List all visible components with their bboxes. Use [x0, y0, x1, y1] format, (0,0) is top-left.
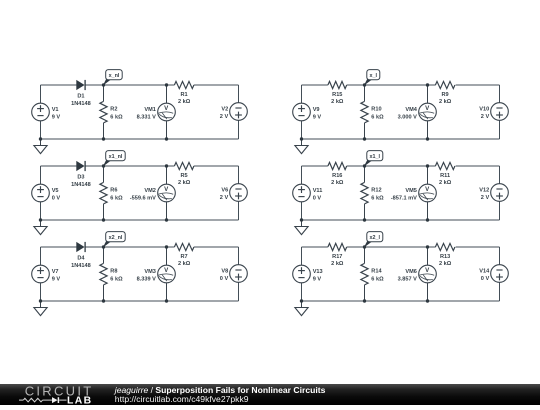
wire: node vertical (R12 branch)	[364, 166, 366, 220]
svg-text:x_l: x_l	[370, 73, 378, 79]
svg-text:V2: V2	[221, 107, 228, 113]
svg-text:V11: V11	[313, 188, 323, 194]
svg-text:R12: R12	[371, 188, 381, 194]
wire: voltmeter vertical (VM2)	[166, 166, 168, 220]
junction dots (V5 circuit)	[39, 164, 168, 221]
voltage source V1 9 V	[32, 103, 61, 121]
svg-text:R14: R14	[371, 269, 382, 275]
junction dots (V1 circuit)	[39, 83, 168, 140]
wire: voltmeter vertical (VM5)	[427, 166, 429, 220]
voltage source V9 9 V	[293, 103, 322, 121]
svg-text:6 kΩ: 6 kΩ	[371, 115, 384, 121]
wire: right vertical (V8)	[238, 247, 240, 301]
svg-text:R7: R7	[181, 254, 188, 260]
wire: left vertical (V13)	[301, 247, 303, 301]
voltage source V14 0 V	[479, 265, 508, 283]
svg-text:1N4148: 1N4148	[71, 182, 91, 188]
voltmeter VM1 8.331 V	[137, 103, 176, 121]
voltage source V11 0 V	[293, 184, 323, 202]
junction dots (V9 circuit)	[300, 83, 429, 140]
voltage source V12 2 V	[479, 184, 508, 202]
svg-text:V8: V8	[221, 269, 228, 275]
ground (V7 circuit)	[34, 301, 47, 316]
wire: bottom rail of circuit V7	[41, 300, 239, 302]
svg-text:6 kΩ: 6 kΩ	[110, 196, 123, 202]
svg-text:6 kΩ: 6 kΩ	[110, 277, 123, 283]
svg-text:2 kΩ: 2 kΩ	[178, 261, 191, 267]
node x1_l	[364, 151, 383, 167]
wire: left vertical (V9)	[301, 85, 303, 139]
resistor R12 6 k&#937;	[361, 182, 384, 204]
svg-text:VM3: VM3	[144, 269, 156, 275]
svg-text:2 kΩ: 2 kΩ	[439, 180, 452, 186]
resistor R2 6 k&#937;	[100, 101, 123, 123]
svg-text:2 kΩ: 2 kΩ	[439, 261, 452, 267]
svg-text:2 V: 2 V	[481, 195, 490, 201]
svg-text:-857.1 mV: -857.1 mV	[391, 195, 417, 201]
resistor R6 6 k&#937;	[100, 182, 123, 204]
CircuitLab logo: diode symbol	[52, 397, 67, 403]
wire: bottom rail of circuit V1	[41, 138, 239, 140]
node x_nl	[103, 70, 122, 86]
wire: top rail of circuit V11	[302, 165, 500, 167]
svg-text:2 kΩ: 2 kΩ	[439, 99, 452, 105]
voltage source V7 9 V	[32, 265, 61, 283]
junction dots (V7 circuit)	[39, 245, 168, 302]
svg-text:3.000 V: 3.000 V	[398, 114, 418, 120]
svg-text:x2_l: x2_l	[370, 235, 381, 241]
svg-text:R16: R16	[332, 173, 342, 179]
svg-text:8.331 V: 8.331 V	[137, 114, 157, 120]
svg-text:V5: V5	[52, 188, 59, 194]
svg-text:2 V: 2 V	[220, 195, 229, 201]
svg-text:9 V: 9 V	[313, 114, 322, 120]
voltage source V5 0 V	[32, 184, 61, 202]
svg-text:V1: V1	[52, 107, 59, 113]
svg-text:6 kΩ: 6 kΩ	[371, 196, 384, 202]
resistor R8 6 k&#937;	[100, 263, 123, 285]
svg-text:V9: V9	[313, 107, 320, 113]
svg-text:R5: R5	[181, 173, 188, 179]
wire: voltmeter vertical (VM1)	[166, 85, 168, 139]
wire: top rail of circuit V13	[302, 246, 500, 248]
resistor R17 2 k&#937;	[328, 243, 347, 267]
svg-text:1N4148: 1N4148	[71, 263, 91, 269]
svg-text:R11: R11	[440, 173, 450, 179]
svg-text:R2: R2	[110, 107, 117, 113]
node x_l	[364, 70, 380, 86]
svg-text:0 V: 0 V	[313, 195, 322, 201]
wire: voltmeter vertical (VM6)	[427, 247, 429, 301]
svg-text:D4: D4	[77, 256, 85, 262]
wire: left vertical (V5)	[40, 166, 42, 220]
wire: node vertical (R8 branch)	[103, 247, 105, 301]
svg-text:R1: R1	[181, 92, 188, 98]
svg-text:D1: D1	[77, 94, 84, 100]
resistor R1 2 k&#937;	[174, 81, 194, 105]
wire: left vertical (V7)	[40, 247, 42, 301]
svg-text:R15: R15	[332, 92, 342, 98]
ground (V13 circuit)	[295, 301, 308, 316]
voltage source V13 9 V	[293, 265, 323, 283]
wire: node vertical (R14 branch)	[364, 247, 366, 301]
wire: left vertical (V11)	[301, 166, 303, 220]
svg-text:2 kΩ: 2 kΩ	[331, 180, 344, 186]
svg-text:VM1: VM1	[144, 107, 156, 113]
svg-text:9 V: 9 V	[52, 276, 61, 282]
svg-text:9 V: 9 V	[52, 114, 61, 120]
wire: voltmeter vertical (VM4)	[427, 85, 429, 139]
svg-text:8.339 V: 8.339 V	[137, 276, 157, 282]
voltage source V8 0 V	[220, 265, 248, 283]
wire: bottom rail of circuit V13	[302, 300, 500, 302]
resistor R14 6 k&#937;	[361, 263, 384, 285]
wire: node vertical (R6 branch)	[103, 166, 105, 220]
svg-text:V10: V10	[479, 107, 489, 113]
wire: top rail of circuit V7	[41, 246, 239, 248]
resistor R7 2 k&#937;	[174, 243, 194, 267]
voltmeter VM5 -857.1 mV	[391, 184, 437, 202]
node x2_nl	[103, 232, 125, 248]
svg-text:2 V: 2 V	[220, 114, 229, 120]
svg-text:x1_nl: x1_nl	[109, 154, 123, 160]
CircuitLab logo: resistor zigzag	[19, 398, 52, 402]
svg-text:x2_nl: x2_nl	[109, 235, 123, 241]
voltage source V2 2 V	[220, 103, 248, 121]
resistor R10 6 k&#937;	[361, 101, 384, 123]
svg-text:3.857 V: 3.857 V	[398, 276, 418, 282]
resistor R11 2 k&#937;	[435, 162, 455, 186]
svg-text:2 kΩ: 2 kΩ	[331, 261, 344, 267]
svg-text:R9: R9	[442, 92, 449, 98]
svg-text:R10: R10	[371, 107, 381, 113]
svg-text:0 V: 0 V	[220, 276, 229, 282]
ground (V11 circuit)	[295, 220, 308, 235]
diode D4 1N4148	[71, 242, 91, 269]
svg-text:9 V: 9 V	[313, 276, 322, 282]
diode D3 1N4148	[71, 161, 91, 188]
svg-text:2 kΩ: 2 kΩ	[178, 99, 191, 105]
voltmeter VM4 3.000 V	[398, 103, 437, 121]
resistor R13 2 k&#937;	[435, 243, 455, 267]
wire: node vertical (R2 branch)	[103, 85, 105, 139]
resistor R9 2 k&#937;	[435, 81, 455, 105]
resistor R5 2 k&#937;	[174, 162, 194, 186]
svg-text:2 kΩ: 2 kΩ	[178, 180, 191, 186]
svg-text:2 kΩ: 2 kΩ	[331, 99, 344, 105]
wire: bottom rail of circuit V9	[302, 138, 500, 140]
wire: right vertical (V12)	[499, 166, 501, 220]
svg-text:VM4: VM4	[405, 107, 417, 113]
svg-text:V7: V7	[52, 269, 59, 275]
diode D1 1N4148	[71, 80, 91, 107]
svg-text:V12: V12	[479, 188, 489, 194]
wire: left vertical (V1)	[40, 85, 42, 139]
ground (V5 circuit)	[34, 220, 47, 235]
voltage source V6 2 V	[220, 184, 248, 202]
svg-text:R13: R13	[440, 254, 450, 260]
svg-text:VM2: VM2	[144, 188, 156, 194]
svg-text:http://circuitlab.com/c49kfve2: http://circuitlab.com/c49kfve27pkk9	[115, 394, 249, 404]
wire: voltmeter vertical (VM3)	[166, 247, 168, 301]
voltmeter VM2 -559.6 mV	[130, 184, 176, 202]
wire: right vertical (V2)	[238, 85, 240, 139]
svg-text:0 V: 0 V	[52, 195, 61, 201]
junction dots (V13 circuit)	[300, 245, 429, 302]
svg-text:LAB: LAB	[67, 396, 93, 405]
svg-text:-559.6 mV: -559.6 mV	[130, 195, 156, 201]
wire: bottom rail of circuit V11	[302, 219, 500, 221]
node x1_nl	[103, 151, 125, 167]
wire: top rail of circuit V5	[41, 165, 239, 167]
svg-text:V6: V6	[221, 188, 228, 194]
wire: right vertical (V14)	[499, 247, 501, 301]
svg-text:0 V: 0 V	[481, 276, 490, 282]
svg-text:R17: R17	[332, 254, 342, 260]
voltmeter VM3 8.339 V	[137, 265, 176, 283]
ground (V9 circuit)	[295, 139, 308, 154]
svg-text:1N4148: 1N4148	[71, 101, 91, 107]
svg-text:R8: R8	[110, 269, 117, 275]
wire: right vertical (V10)	[499, 85, 501, 139]
ground (V1 circuit)	[34, 139, 47, 154]
wire: right vertical (V6)	[238, 166, 240, 220]
voltage source V10 2 V	[479, 103, 508, 121]
svg-text:6 kΩ: 6 kΩ	[371, 277, 384, 283]
svg-text:VM5: VM5	[405, 188, 417, 194]
svg-text:V13: V13	[313, 269, 323, 275]
resistor R16 2 k&#937;	[328, 162, 347, 186]
wire: top rail of circuit V9	[302, 84, 500, 86]
voltmeter VM6 3.857 V	[398, 265, 437, 283]
svg-text:D3: D3	[77, 175, 84, 181]
resistor R15 2 k&#937;	[328, 81, 347, 105]
wire: node vertical (R10 branch)	[364, 85, 366, 139]
wire: top rail of circuit V1	[41, 84, 239, 86]
svg-text:V14: V14	[479, 269, 490, 275]
svg-text:6 kΩ: 6 kΩ	[110, 115, 123, 121]
junction dots (V11 circuit)	[300, 164, 429, 221]
svg-text:VM6: VM6	[405, 269, 417, 275]
svg-text:2 V: 2 V	[481, 114, 490, 120]
wire: bottom rail of circuit V5	[41, 219, 239, 221]
svg-text:R6: R6	[110, 188, 117, 194]
node x2_l	[364, 232, 383, 248]
svg-text:x1_l: x1_l	[370, 154, 381, 160]
svg-text:x_nl: x_nl	[109, 73, 120, 79]
